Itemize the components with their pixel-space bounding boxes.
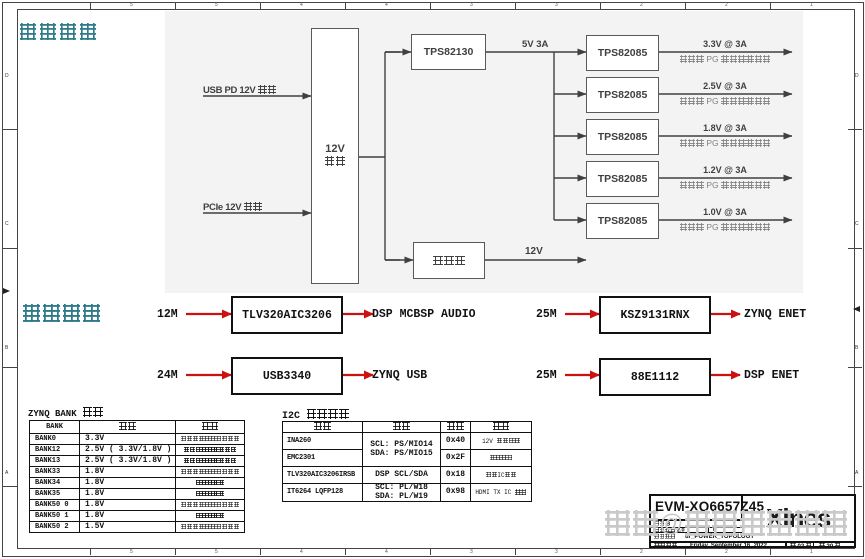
heading: 时钟拓扑 (clock topology title): [22, 304, 102, 326]
watermark: 知乎@广州星嵌电子: [604, 508, 848, 540]
wire: red clock arrow into right box: [565, 313, 599, 315]
label: PG control note: [660, 222, 790, 232]
block: TPS82130: [411, 34, 486, 70]
block: 12V power source: [311, 28, 359, 284]
block: TPS82085 rail 5: [586, 203, 659, 239]
label: PG control note: [660, 96, 790, 106]
label: rail voltage 1.0V @ 3A: [660, 207, 790, 217]
wire: TPS82130 5V output trunk feeding five TPS82085: [484, 52, 586, 220]
wire: red clock arrow into left box: [186, 313, 231, 315]
wire: USB PD 12V input into 12V block: [203, 95, 311, 97]
block: USB3340 USB PHY: [231, 357, 343, 395]
block: KSZ9131RNX ethernet PHY: [599, 296, 711, 334]
table: I2C device address title: [282, 409, 349, 422]
label: 5V 3A: [522, 39, 548, 50]
title block: sheet info: [649, 494, 856, 548]
label: PG control note: [660, 54, 790, 64]
block: TLV320AIC3206 codec: [231, 296, 343, 334]
wire: red clock arrow into left box: [186, 374, 231, 376]
wire: red clock arrow into right box: [565, 374, 599, 376]
label: ZYNQ USB: [372, 369, 427, 382]
block: TPS82085 rail 3: [586, 119, 659, 155]
wire: TPS82085 rail output arrow 3: [657, 135, 792, 137]
wire: core board 12V output arrow: [483, 259, 586, 261]
wire: red clock arrow out of right box: [708, 313, 740, 315]
wire: TPS82085 rail output arrow 4: [657, 177, 792, 179]
wire: 12V block output trunk to TPS82130 and core board: [357, 52, 413, 260]
block: TPS82085 rail 4: [586, 161, 659, 197]
label: rail voltage 2.5V @ 3A: [660, 81, 790, 91]
label: PG control note: [660, 138, 790, 148]
block: TPS82085 rail 2: [586, 77, 659, 113]
wire: PCIe 12V input into 12V block: [203, 212, 311, 214]
label: 12M: [157, 308, 178, 321]
wire: TPS82085 rail output arrow 5: [657, 219, 792, 221]
table: I2C device address table: [282, 421, 532, 502]
heading: 电源拓扑 (power topology title): [18, 22, 98, 43]
label: USB PD 12V input: [203, 85, 276, 96]
label: rail voltage 1.2V @ 3A: [660, 165, 790, 175]
label: DSP ENET: [744, 369, 799, 382]
label: PCIe 12V input: [203, 202, 262, 213]
wire: TPS82085 rail output arrow 1: [657, 51, 792, 53]
wire: red clock arrow out of left box: [341, 374, 373, 376]
block: core board (核心板): [413, 242, 485, 279]
label: PG control note: [660, 180, 790, 190]
label: 25M (row2): [536, 369, 557, 382]
label: rail voltage 1.8V @ 3A: [660, 123, 790, 133]
table: ZYNQ BANK voltages title: [28, 407, 104, 420]
label: DSP MCBSP AUDIO: [372, 308, 476, 321]
label: 25M (row1): [536, 308, 557, 321]
block: 88E1112 ethernet PHY: [599, 358, 711, 396]
table: ZYNQ BANK voltage table: [29, 420, 245, 533]
wire: red clock arrow out of left box: [341, 313, 373, 315]
label: ZYNQ ENET: [744, 308, 806, 321]
wire: red clock arrow out of right box: [708, 374, 740, 376]
block: TPS82085 rail 1: [586, 35, 659, 71]
label: 12V core board feed: [525, 246, 543, 257]
label: rail voltage 3.3V @ 3A: [660, 39, 790, 49]
label: 24M: [157, 369, 178, 382]
wire: TPS82085 rail output arrow 2: [657, 93, 792, 95]
